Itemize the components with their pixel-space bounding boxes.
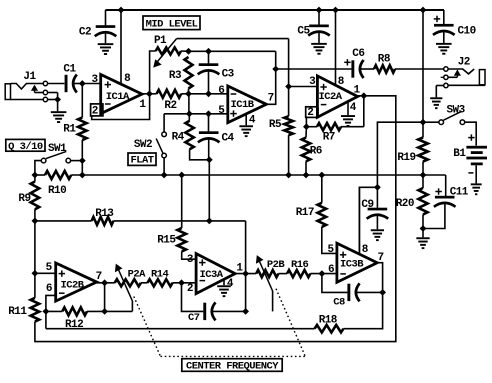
svg-text:R11: R11 — [8, 306, 27, 318]
svg-text:R4: R4 — [172, 131, 185, 143]
svg-text:C11: C11 — [450, 186, 469, 198]
svg-text:C9: C9 — [361, 199, 373, 211]
svg-text:P2B: P2B — [267, 259, 286, 271]
svg-text:6: 6 — [328, 264, 334, 276]
svg-text:IC3A: IC3A — [200, 269, 224, 281]
svg-text:4: 4 — [350, 102, 357, 114]
svg-text:2: 2 — [92, 105, 98, 117]
svg-text:C7: C7 — [188, 312, 200, 324]
svg-text:2: 2 — [187, 283, 193, 295]
svg-text:R14: R14 — [151, 268, 169, 280]
svg-text:R2: R2 — [164, 100, 176, 112]
svg-text:B1: B1 — [453, 148, 466, 160]
svg-text:IC3B: IC3B — [340, 259, 364, 271]
svg-text:SW2: SW2 — [134, 139, 152, 151]
svg-text:R20: R20 — [396, 198, 414, 210]
svg-text:MID LEVEL: MID LEVEL — [146, 18, 198, 30]
svg-text:IC1A: IC1A — [106, 91, 130, 103]
svg-text:R18: R18 — [319, 314, 338, 326]
svg-text:C5: C5 — [297, 26, 310, 38]
svg-text:R3: R3 — [169, 70, 182, 82]
svg-text:C10: C10 — [458, 26, 476, 38]
svg-text:P2A: P2A — [128, 268, 147, 280]
svg-text:3: 3 — [187, 254, 194, 266]
svg-text:C1: C1 — [63, 64, 76, 76]
svg-text:R5: R5 — [269, 119, 282, 131]
svg-text:R13: R13 — [95, 208, 114, 220]
svg-text:J2: J2 — [458, 56, 470, 68]
svg-text:R19: R19 — [397, 152, 415, 164]
svg-text:R17: R17 — [296, 207, 314, 219]
svg-text:8: 8 — [124, 73, 131, 85]
svg-text:8: 8 — [338, 76, 345, 88]
svg-text:C8: C8 — [333, 296, 345, 308]
svg-text:IC2B: IC2B — [61, 280, 85, 292]
svg-text:7: 7 — [268, 92, 274, 104]
svg-text:SW1: SW1 — [48, 143, 67, 155]
svg-text:R16: R16 — [291, 259, 309, 271]
svg-text:IC2A: IC2A — [319, 91, 343, 103]
svg-text:C6: C6 — [352, 48, 364, 60]
svg-text:2: 2 — [307, 107, 313, 119]
svg-text:3: 3 — [309, 76, 316, 88]
svg-text:IC1B: IC1B — [231, 99, 255, 111]
svg-text:4: 4 — [227, 278, 234, 290]
svg-text:C2: C2 — [79, 27, 91, 39]
svg-text:8: 8 — [362, 244, 369, 256]
svg-text:R1: R1 — [63, 123, 76, 135]
svg-text:R15: R15 — [157, 234, 176, 246]
svg-text:5: 5 — [218, 105, 225, 117]
svg-text:3: 3 — [91, 74, 98, 86]
svg-text:SW3: SW3 — [447, 104, 466, 116]
svg-text:1: 1 — [139, 99, 146, 111]
svg-text:R8: R8 — [378, 54, 391, 66]
svg-text:5: 5 — [46, 262, 53, 274]
svg-text:R10: R10 — [48, 185, 66, 197]
svg-text:P1: P1 — [154, 35, 167, 47]
svg-text:R9: R9 — [18, 193, 30, 205]
svg-text:Q 3/10: Q 3/10 — [8, 141, 43, 153]
svg-text:R7: R7 — [323, 132, 335, 144]
svg-text:6: 6 — [218, 85, 224, 97]
svg-text:J1: J1 — [23, 71, 36, 83]
svg-text:1: 1 — [353, 85, 360, 97]
svg-text:C4: C4 — [222, 133, 235, 145]
svg-text:C3: C3 — [222, 68, 235, 80]
svg-text:CENTER FREQUENCY: CENTER FREQUENCY — [186, 360, 279, 372]
svg-text:FLAT: FLAT — [130, 155, 153, 167]
svg-text:R6: R6 — [310, 145, 322, 157]
svg-text:1: 1 — [236, 262, 243, 274]
svg-text:4: 4 — [249, 115, 256, 127]
svg-text:7: 7 — [96, 271, 102, 283]
svg-text:6: 6 — [46, 283, 52, 295]
